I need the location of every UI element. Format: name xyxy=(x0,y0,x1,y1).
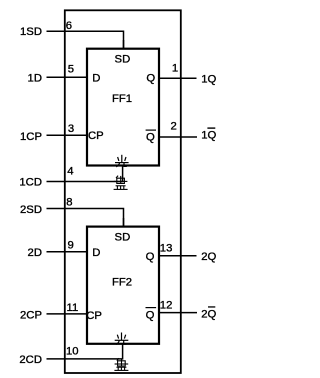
svg-text:1CD: 1CD xyxy=(19,177,42,189)
svg-text:Q: Q xyxy=(146,72,155,84)
svg-text:1Q: 1Q xyxy=(201,74,216,86)
flip-flop FF2 box xyxy=(87,227,159,344)
svg-text:2SD: 2SD xyxy=(20,204,42,216)
label D of FF1 xyxy=(92,72,100,84)
svg-text:9: 9 xyxy=(68,239,74,251)
IC package boundary box xyxy=(65,10,181,373)
pin 5 xyxy=(68,64,74,76)
svg-text:Q: Q xyxy=(146,310,155,322)
pin 4 xyxy=(67,166,73,178)
svg-text:10: 10 xyxy=(66,346,79,358)
svg-text:1: 1 xyxy=(172,62,178,74)
label 2D xyxy=(28,247,42,259)
pin 2 xyxy=(171,121,177,133)
label CP of FF1 xyxy=(88,130,104,142)
pin 10 xyxy=(66,346,79,358)
label FF1 xyxy=(112,93,132,105)
svg-text:Q: Q xyxy=(146,131,155,143)
wire 1SD input xyxy=(47,31,124,48)
pin 3 xyxy=(68,123,74,135)
wire 2D input xyxy=(47,251,88,253)
svg-text:1D: 1D xyxy=(28,72,42,84)
wire 2CD input xyxy=(47,344,123,359)
pin 13 xyxy=(160,242,173,254)
svg-text:2D: 2D xyxy=(28,247,42,259)
wire 1D input xyxy=(47,76,88,78)
label FF2 xyxy=(112,277,132,289)
label 2SD xyxy=(20,204,42,216)
label 1Qbar xyxy=(201,127,216,141)
label 1SD xyxy=(20,26,42,38)
label 1CD xyxy=(19,177,42,189)
label 1CP xyxy=(20,131,42,143)
svg-text:13: 13 xyxy=(160,242,173,254)
label 2Q xyxy=(201,251,216,263)
label D of FF2 xyxy=(92,247,100,259)
pin 6 xyxy=(66,20,72,32)
svg-text:SD: SD xyxy=(115,54,131,66)
pin 11 xyxy=(67,302,79,314)
wire 1Qbar output xyxy=(159,136,197,138)
wire 2Q output xyxy=(159,255,197,257)
svg-text:5: 5 xyxy=(68,64,74,76)
svg-text:2: 2 xyxy=(171,121,177,133)
CD-input glyph (guang) of FF2 xyxy=(115,333,129,345)
svg-text:2Q: 2Q xyxy=(201,251,216,263)
label SD of FF1 xyxy=(115,54,131,66)
svg-text:D: D xyxy=(92,72,100,84)
wire 1CD input xyxy=(47,166,123,182)
wire 1Q output xyxy=(159,77,197,79)
label Qbar of FF1 xyxy=(146,130,156,144)
svg-text:FF2: FF2 xyxy=(112,277,132,289)
wire 2SD input xyxy=(47,209,124,227)
svg-text:2CD: 2CD xyxy=(19,354,42,366)
wire 2CP input xyxy=(47,313,88,315)
svg-text:CP: CP xyxy=(86,310,102,322)
svg-text:12: 12 xyxy=(160,299,173,311)
svg-text:Q: Q xyxy=(146,251,155,263)
svg-text:6: 6 xyxy=(66,20,72,32)
label 2Qbar xyxy=(201,306,216,320)
svg-text:SD: SD xyxy=(115,232,131,244)
svg-text:11: 11 xyxy=(67,302,79,314)
svg-text:3: 3 xyxy=(68,123,74,135)
svg-text:D: D xyxy=(92,247,100,259)
wire stub 1SD into FF1 xyxy=(123,40,125,49)
label Q of FF2 xyxy=(146,251,155,263)
flip-flop FF1 box xyxy=(87,49,159,166)
svg-text:1SD: 1SD xyxy=(20,26,42,38)
CD-input glyph (pan) of FF1 xyxy=(114,176,128,190)
pin 9 xyxy=(68,239,74,251)
label 1D xyxy=(28,72,42,84)
label 2CD xyxy=(19,354,42,366)
svg-text:2Q: 2Q xyxy=(201,308,216,320)
svg-text:4: 4 xyxy=(67,166,73,178)
svg-text:1CP: 1CP xyxy=(20,131,42,143)
wire stub 2SD into FF2 xyxy=(123,218,125,227)
CD-input glyph (pan) of FF2 xyxy=(114,358,128,370)
wire 1CP input xyxy=(47,134,88,136)
CD-input glyph (guang) of FF1 xyxy=(115,155,129,167)
svg-text:FF1: FF1 xyxy=(112,93,132,105)
pin 8 xyxy=(66,196,72,208)
svg-text:8: 8 xyxy=(66,196,72,208)
pin 12 xyxy=(160,299,173,311)
svg-text:2CP: 2CP xyxy=(20,309,42,321)
label 2CP xyxy=(20,309,42,321)
label 1Q xyxy=(201,74,216,86)
label Q of FF1 xyxy=(146,72,155,84)
svg-text:CP: CP xyxy=(88,130,104,142)
pin 1 xyxy=(172,62,178,74)
label CP of FF2 xyxy=(86,310,102,322)
label Qbar of FF2 xyxy=(146,307,157,322)
label SD of FF2 xyxy=(115,232,131,244)
wire 2Qbar output xyxy=(159,312,197,314)
svg-text:1Q: 1Q xyxy=(201,129,216,141)
